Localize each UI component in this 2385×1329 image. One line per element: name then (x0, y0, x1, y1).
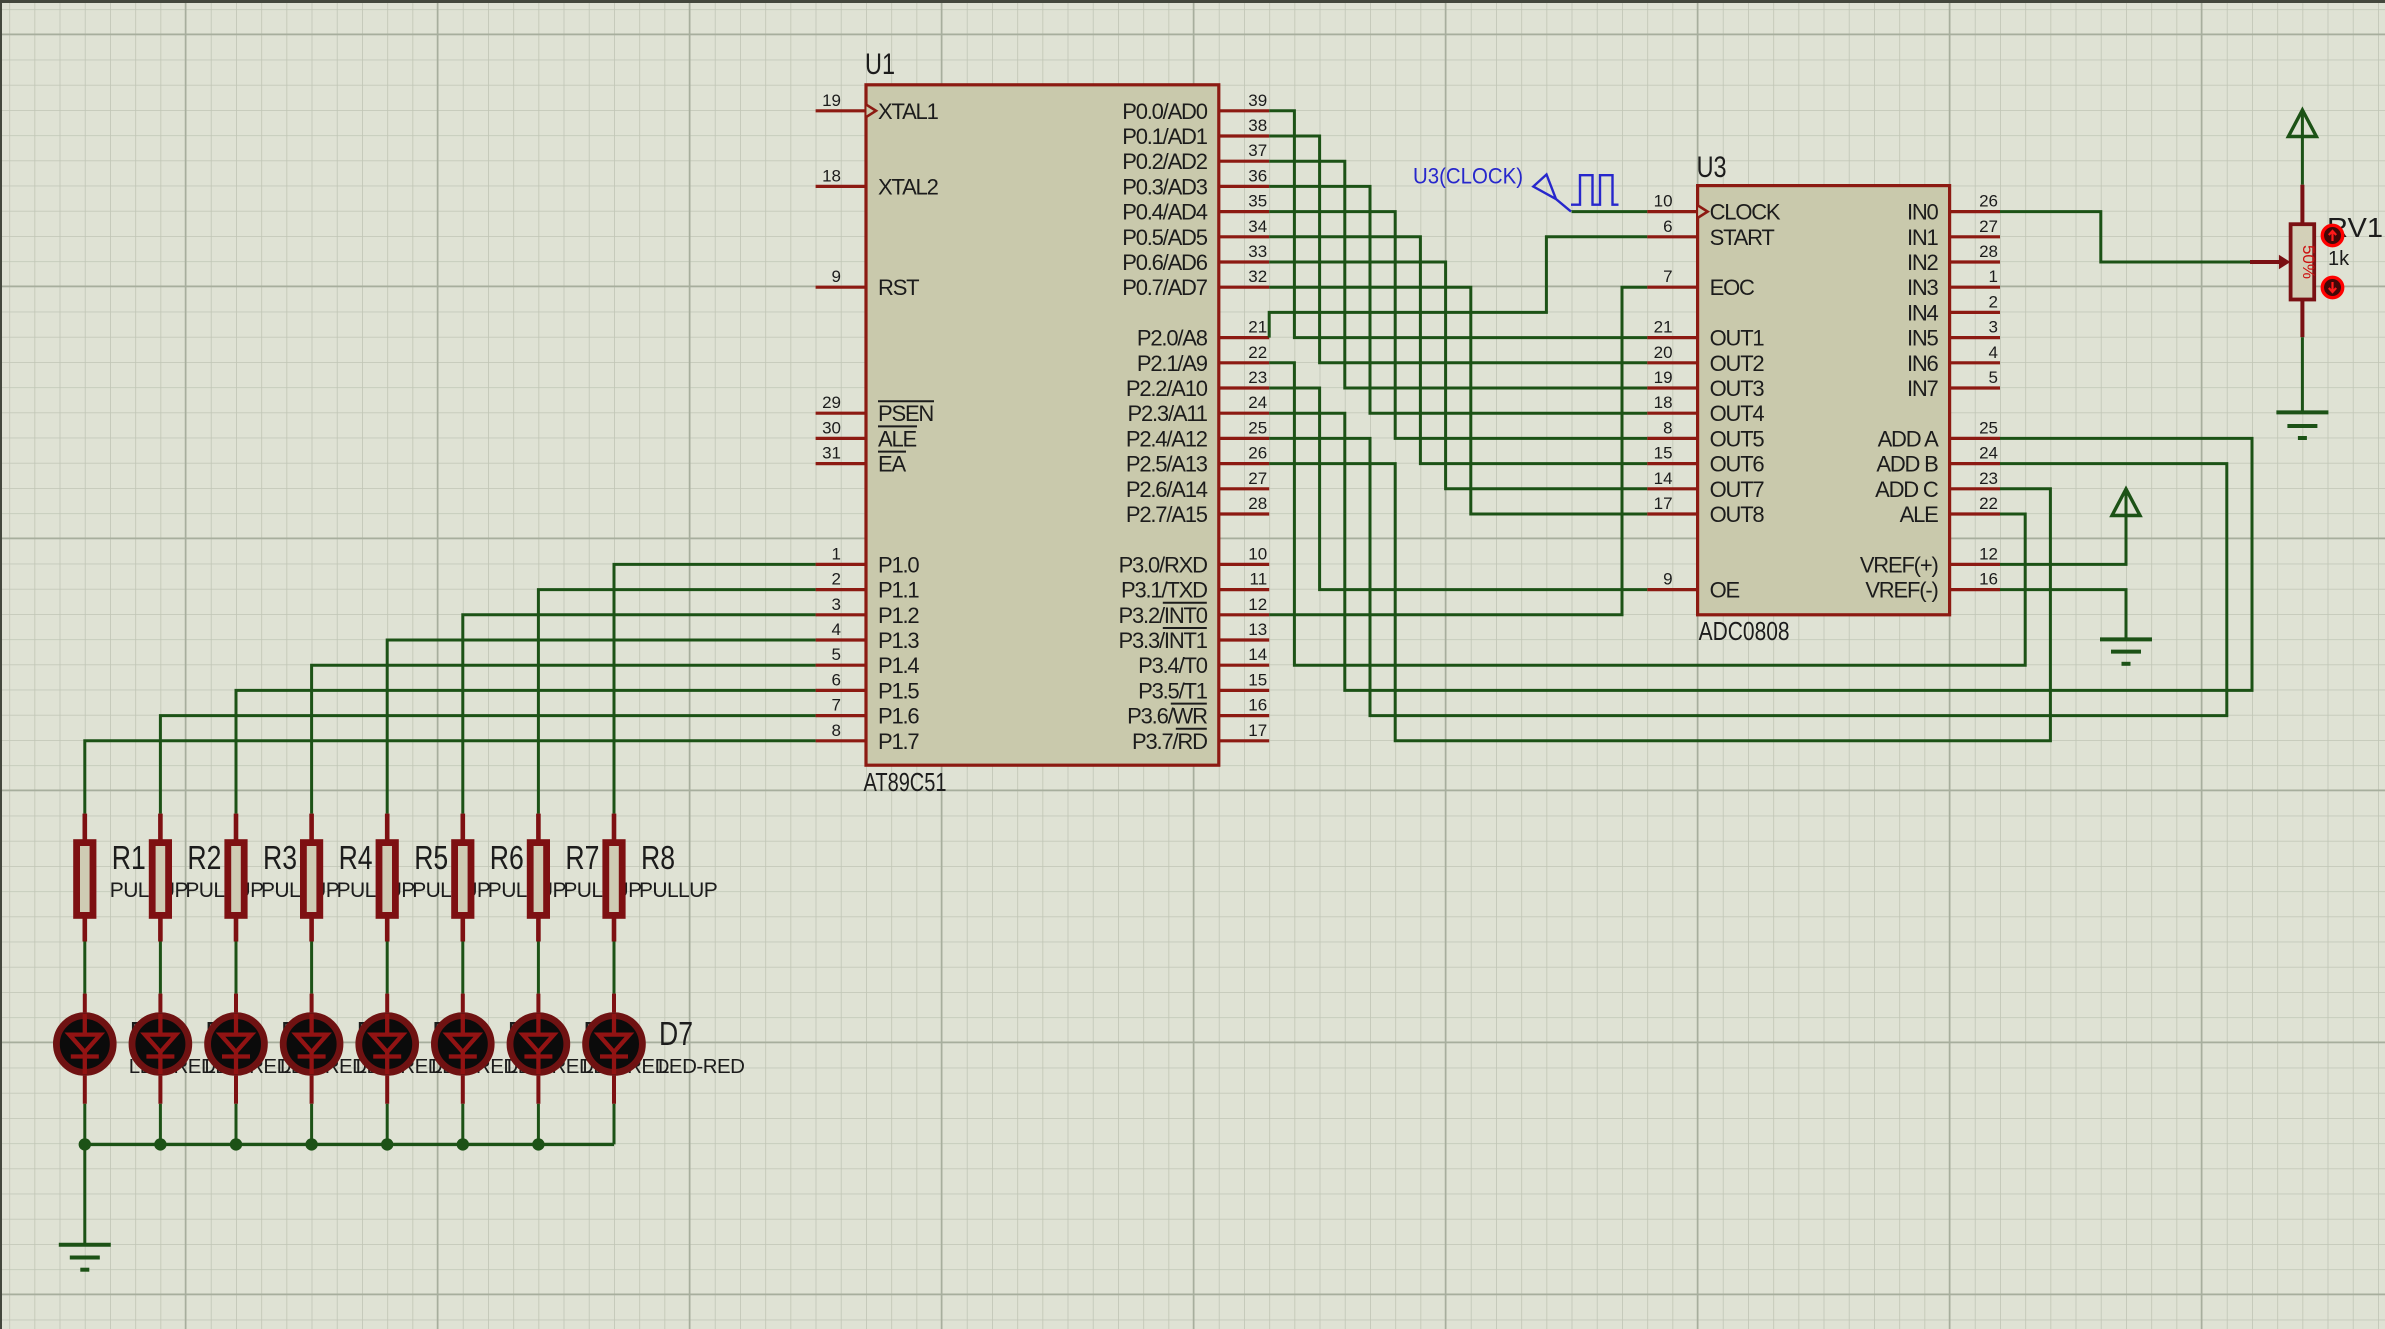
svg-text:15: 15 (1248, 670, 1267, 689)
svg-text:31: 31 (822, 444, 841, 463)
svg-text:U3(CLOCK): U3(CLOCK) (1413, 164, 1523, 189)
U3 pin 5 IN7 (1950, 368, 2000, 388)
wire P2.3 to ADD A (1269, 413, 2252, 690)
svg-text:P0.5/AD5: P0.5/AD5 (1122, 225, 1208, 250)
svg-text:IN7: IN7 (1907, 376, 1939, 401)
U3 pin 9 OE (1647, 570, 1697, 590)
svg-text:P3.1/TXD: P3.1/TXD (1121, 578, 1207, 603)
resistor R1 PULLUP (77, 814, 188, 942)
svg-text:ALE: ALE (1900, 502, 1939, 527)
svg-text:1: 1 (1989, 267, 1998, 286)
wire R7 to D6 (537, 942, 540, 994)
svg-text:13: 13 (1248, 620, 1267, 639)
pin 38 P0.1/AD1 (1219, 116, 1269, 136)
pin 35 P0.4/AD4 (1219, 192, 1269, 212)
svg-text:OUT2: OUT2 (1710, 351, 1765, 376)
svg-text:P1.3: P1.3 (878, 628, 919, 653)
U3 pin 16 VREF(-) (1950, 570, 2000, 590)
pin 5 P1.4 (816, 645, 866, 665)
svg-text:P3.2/INT0: P3.2/INT0 (1119, 603, 1208, 628)
wire P1.7 to R1 (85, 741, 816, 814)
pin 19 XTAL1 (816, 91, 866, 111)
svg-text:39: 39 (1248, 91, 1267, 110)
wire R8 to D7 (613, 942, 616, 994)
U3 pin 10 CLOCK (1647, 192, 1697, 212)
pin 15 P3.5/T1 (1219, 670, 1269, 690)
U3 pin 14 OUT7 (1647, 469, 1697, 489)
svg-text:RST: RST (878, 275, 919, 300)
svg-text:AT89C51: AT89C51 (864, 767, 947, 797)
svg-text:34: 34 (1248, 217, 1267, 236)
svg-text:P2.7/A15: P2.7/A15 (1126, 502, 1208, 527)
wire R2 to D1 (159, 942, 162, 994)
wire P2.2 to OE (1269, 388, 1647, 590)
LED D5 LED-RED (434, 994, 491, 1104)
svg-text:P3.6/WR: P3.6/WR (1127, 704, 1207, 729)
pin 4 P1.3 (816, 620, 866, 640)
svg-text:24: 24 (1979, 444, 1998, 463)
IC U1 AT89C51 body (866, 85, 1219, 765)
RV1 wiper arrow (2250, 260, 2282, 264)
resistor R3 PULLUP (228, 814, 339, 942)
wire R1 to D0 (83, 942, 86, 994)
svg-text:21: 21 (1248, 318, 1267, 337)
svg-text:IN0: IN0 (1907, 200, 1939, 225)
svg-text:P1.0: P1.0 (878, 552, 919, 577)
svg-text:P2.6/A14: P2.6/A14 (1126, 477, 1208, 502)
wire VREF(-) to ground (2000, 590, 2126, 640)
svg-text:14: 14 (1248, 645, 1267, 664)
pin 32 P0.7/AD7 (1219, 267, 1269, 287)
svg-text:20: 20 (1654, 343, 1673, 362)
pin 1 P1.0 (816, 544, 866, 564)
svg-text:R2: R2 (187, 839, 221, 876)
svg-text:P3.7/RD: P3.7/RD (1132, 729, 1207, 754)
wire P1.6 to R2 (160, 716, 815, 814)
pin 7 P1.6 (816, 696, 866, 716)
svg-text:ADD B: ADD B (1876, 452, 1938, 477)
svg-text:R4: R4 (339, 839, 373, 876)
U3 pin 28 IN2 (1950, 242, 2000, 262)
svg-text:26: 26 (1979, 192, 1998, 211)
svg-text:5: 5 (1989, 368, 1998, 387)
svg-text:P3.0/RXD: P3.0/RXD (1119, 552, 1208, 577)
U3 pin 6 START (1647, 217, 1697, 237)
resistor R6 PULLUP (455, 814, 566, 942)
wire D6 to bus (537, 1104, 540, 1145)
wire D7 to bus (613, 1104, 616, 1145)
pin 8 P1.7 (816, 721, 866, 741)
wire P1.5 to R3 (236, 690, 816, 813)
pin 14 P3.4/T0 (1219, 645, 1269, 665)
pin 13 P3.3/INT1 (1219, 620, 1269, 640)
U3 pin 12 VREF(+) (1950, 544, 2000, 564)
wire P0.6 to OUT7 (1269, 262, 1647, 489)
pin 26 P2.5/A13 (1219, 444, 1269, 464)
svg-text:30: 30 (822, 418, 841, 437)
svg-text:XTAL2: XTAL2 (878, 174, 939, 199)
svg-text:OUT3: OUT3 (1710, 376, 1765, 401)
U3 pin 4 IN6 (1950, 343, 2000, 363)
wire P0.7 to OUT8 (1269, 287, 1647, 514)
svg-text:37: 37 (1248, 141, 1267, 160)
svg-text:3: 3 (832, 595, 841, 614)
IC U3 ADC0808 body (1698, 186, 1950, 615)
svg-text:50%: 50% (2299, 245, 2318, 279)
svg-text:OE: OE (1710, 578, 1740, 603)
U3 pin 1 IN3 (1950, 267, 2000, 287)
pin 25 P2.4/A12 (1219, 418, 1269, 438)
svg-text:16: 16 (1248, 696, 1267, 715)
pin 29 PSEN (816, 393, 866, 413)
U3 pin 21 OUT1 (1647, 318, 1697, 338)
svg-text:27: 27 (1979, 217, 1998, 236)
svg-text:8: 8 (1663, 418, 1672, 437)
wire R3 to D2 (235, 942, 238, 994)
svg-text:PSEN: PSEN (878, 401, 933, 426)
wire EOC to P3.2/INT0 (1269, 287, 1647, 615)
svg-text:4: 4 (832, 620, 841, 639)
svg-text:24: 24 (1248, 393, 1267, 412)
LED D0 LED-RED (56, 994, 113, 1104)
wire P0.1 to OUT2 (1269, 136, 1647, 363)
wire P0.5 to OUT6 (1269, 237, 1647, 464)
svg-text:IN4: IN4 (1907, 300, 1939, 325)
junction (230, 1138, 242, 1150)
clock generator marker triangle (1533, 175, 1571, 212)
svg-text:OUT1: OUT1 (1710, 326, 1765, 351)
svg-text:29: 29 (822, 393, 841, 412)
svg-text:P1.6: P1.6 (878, 704, 919, 729)
svg-text:U3: U3 (1697, 151, 1727, 184)
svg-text:IN2: IN2 (1907, 250, 1939, 275)
svg-text:9: 9 (1663, 570, 1672, 589)
pin 10 P3.0/RXD (1219, 544, 1269, 564)
U3 pin 27 IN1 (1950, 217, 2000, 237)
svg-text:7: 7 (1663, 267, 1672, 286)
wire P1.0 to R8 (614, 564, 816, 813)
svg-text:17: 17 (1654, 494, 1673, 513)
resistor R5 PULLUP (379, 814, 490, 942)
svg-text:12: 12 (1979, 544, 1998, 563)
wire D3 to bus (310, 1104, 313, 1145)
svg-text:18: 18 (822, 166, 841, 185)
svg-text:R6: R6 (490, 839, 524, 876)
junction (532, 1138, 544, 1150)
svg-text:P0.2/AD2: P0.2/AD2 (1122, 149, 1208, 174)
svg-text:2: 2 (832, 570, 841, 589)
svg-text:VREF(+): VREF(+) (1860, 552, 1938, 577)
RV1 top pin (2300, 185, 2304, 223)
svg-text:IN1: IN1 (1907, 225, 1939, 250)
XTAL1 clock-input arrow (867, 105, 877, 117)
wire P1.2 to R6 (463, 615, 816, 814)
svg-text:CLOCK: CLOCK (1710, 200, 1781, 225)
svg-text:VREF(-): VREF(-) (1865, 578, 1937, 603)
svg-text:P1.1: P1.1 (878, 578, 919, 603)
svg-text:D7: D7 (659, 1015, 693, 1052)
U3 pin 23 ADD C (1950, 469, 2000, 489)
svg-text:10: 10 (1248, 544, 1267, 563)
wire D0 to bus (83, 1104, 86, 1145)
ground symbol bottom-left (59, 1245, 111, 1270)
junction (154, 1138, 166, 1150)
svg-text:27: 27 (1248, 469, 1267, 488)
wire RV1 to ground (2301, 337, 2304, 412)
svg-text:ALE: ALE (878, 426, 917, 451)
svg-text:ADD C: ADD C (1875, 477, 1939, 502)
pin 12 P3.2/INT0 (1219, 595, 1269, 615)
ground symbol below RV1 (2276, 412, 2328, 438)
RV1 bottom pin (2300, 300, 2304, 338)
wire P1.3 to R5 (387, 640, 815, 814)
svg-text:12: 12 (1248, 595, 1267, 614)
svg-text:START: START (1710, 225, 1775, 250)
wire P0.4 to OUT5 (1269, 212, 1647, 439)
svg-text:21: 21 (1654, 318, 1673, 337)
svg-text:P2.0/A8: P2.0/A8 (1137, 326, 1208, 351)
U3 pin 26 IN0 (1950, 192, 2000, 212)
svg-text:OUT4: OUT4 (1710, 401, 1765, 426)
svg-text:4: 4 (1989, 343, 1998, 362)
LED D7 LED-RED (586, 994, 643, 1104)
svg-text:5: 5 (832, 645, 841, 664)
svg-text:P1.4: P1.4 (878, 653, 919, 678)
svg-text:P3.4/T0: P3.4/T0 (1138, 653, 1208, 678)
svg-text:P2.1/A9: P2.1/A9 (1137, 351, 1208, 376)
svg-text:P0.6/AD6: P0.6/AD6 (1122, 250, 1208, 275)
svg-text:P3.5/T1: P3.5/T1 (1138, 678, 1208, 703)
U3 pin 2 IN4 (1950, 292, 2000, 312)
svg-text:ADC0808: ADC0808 (1699, 616, 1790, 646)
pin 16 P3.6/WR (1219, 696, 1269, 716)
svg-text:R1: R1 (112, 839, 146, 876)
pin 31 EA (816, 444, 866, 464)
RV1 adjust-down marker (2322, 277, 2342, 297)
RV1 adjust-up marker (2322, 225, 2342, 245)
wire P1.1 to R7 (538, 590, 815, 814)
U3 pin 18 OUT4 (1647, 393, 1697, 413)
junction (381, 1138, 393, 1150)
wire P0.3 to OUT4 (1269, 186, 1647, 413)
LED D4 labels (431, 1015, 518, 1078)
pin 37 P0.2/AD2 (1219, 141, 1269, 161)
svg-text:38: 38 (1248, 116, 1267, 135)
U3 pin 3 IN5 (1950, 318, 2000, 338)
RV1 body (2291, 224, 2315, 299)
svg-text:23: 23 (1248, 368, 1267, 387)
pin 18 XTAL2 (816, 166, 866, 186)
svg-text:35: 35 (1248, 192, 1267, 211)
LED D2 LED-RED (208, 994, 265, 1104)
wire P2.5 to ADD C (1269, 464, 2050, 741)
svg-text:U1: U1 (865, 48, 895, 81)
wire P1.4 to R4 (312, 665, 816, 813)
pin 30 ALE (816, 418, 866, 438)
svg-text:33: 33 (1248, 242, 1267, 261)
U3 pin 7 EOC (1647, 267, 1697, 287)
U3 pin 20 OUT2 (1647, 343, 1697, 363)
svg-text:P0.3/AD3: P0.3/AD3 (1122, 174, 1208, 199)
resistor R8 PULLUP (606, 814, 717, 942)
svg-text:OUT8: OUT8 (1710, 502, 1765, 527)
svg-text:9: 9 (832, 267, 841, 286)
wire P0.2 to OUT3 (1269, 161, 1647, 388)
svg-text:EA: EA (878, 452, 906, 477)
svg-text:P0.1/AD1: P0.1/AD1 (1122, 124, 1208, 149)
junction (457, 1138, 469, 1150)
svg-text:28: 28 (1979, 242, 1998, 261)
svg-text:P2.2/A10: P2.2/A10 (1126, 376, 1208, 401)
resistor R2 PULLUP (152, 814, 263, 942)
svg-text:P2.5/A13: P2.5/A13 (1126, 452, 1208, 477)
wire D4 to bus (386, 1104, 389, 1145)
svg-text:25: 25 (1979, 418, 1998, 437)
LED D6 LED-RED (510, 994, 567, 1104)
svg-text:15: 15 (1654, 444, 1673, 463)
wire R5 to D4 (386, 942, 389, 994)
svg-text:P1.7: P1.7 (878, 729, 919, 754)
svg-text:P2.4/A12: P2.4/A12 (1126, 426, 1208, 451)
cathode bus wire (85, 1143, 614, 1146)
svg-text:6: 6 (1663, 217, 1672, 236)
pin 6 P1.5 (816, 670, 866, 690)
svg-text:OUT7: OUT7 (1710, 477, 1765, 502)
pin 27 P2.6/A14 (1219, 469, 1269, 489)
wire D2 to bus (235, 1104, 238, 1145)
U3 CLOCK input arrow (1698, 206, 1708, 218)
LED D6 labels (582, 1015, 669, 1078)
svg-text:10: 10 (1654, 192, 1673, 211)
svg-text:1: 1 (832, 544, 841, 563)
LED D4 LED-RED (359, 994, 416, 1104)
svg-text:R8: R8 (641, 839, 675, 876)
wire clock generator to U3 CLOCK (1572, 210, 1648, 213)
svg-text:P0.4/AD4: P0.4/AD4 (1122, 200, 1208, 225)
pin 28 P2.7/A15 (1219, 494, 1269, 514)
U3 pin 15 OUT6 (1647, 444, 1697, 464)
pin 17 P3.7/RD (1219, 721, 1269, 741)
svg-text:OUT5: OUT5 (1710, 426, 1765, 451)
pin 3 P1.2 (816, 595, 866, 615)
wire R4 to D3 (310, 942, 313, 994)
LED D7 labels (658, 1015, 745, 1078)
pin 36 P0.3/AD3 (1219, 166, 1269, 186)
wire P0.0 to OUT1 (1269, 111, 1647, 338)
svg-text:P1.2: P1.2 (878, 603, 919, 628)
svg-text:IN5: IN5 (1907, 326, 1939, 351)
LED D3 LED-RED (283, 994, 340, 1104)
wire P2.0 to START (1269, 237, 1647, 338)
U3 pin 8 OUT5 (1647, 418, 1697, 438)
svg-text:25: 25 (1248, 418, 1267, 437)
pin 22 P2.1/A9 (1219, 343, 1269, 363)
svg-text:23: 23 (1979, 469, 1998, 488)
power symbol above RV1 (2288, 110, 2316, 185)
LED D2 labels (280, 1015, 367, 1078)
junction (305, 1138, 317, 1150)
U3 pin 17 OUT8 (1647, 494, 1697, 514)
pin 23 P2.2/A10 (1219, 368, 1269, 388)
svg-text:P3.3/INT1: P3.3/INT1 (1119, 628, 1208, 653)
pin 2 P1.1 (816, 570, 866, 590)
svg-text:P0.0/AD0: P0.0/AD0 (1122, 99, 1208, 124)
svg-text:R7: R7 (565, 839, 599, 876)
LED D5 labels (507, 1015, 594, 1078)
svg-text:IN3: IN3 (1907, 275, 1939, 300)
svg-text:22: 22 (1248, 343, 1267, 362)
wire IN0 to RV1 wiper (2000, 212, 2252, 262)
svg-text:18: 18 (1654, 393, 1673, 412)
svg-text:17: 17 (1248, 721, 1267, 740)
LED D3 labels (356, 1015, 443, 1078)
svg-text:6: 6 (832, 670, 841, 689)
svg-text:7: 7 (832, 696, 841, 715)
U3 pin 25 ADD A (1950, 418, 2000, 438)
U3 pin 22 ALE (1950, 494, 2000, 514)
svg-text:2: 2 (1989, 292, 1998, 311)
svg-text:22: 22 (1979, 494, 1998, 513)
svg-text:19: 19 (1654, 368, 1673, 387)
LED D1 LED-RED (132, 994, 189, 1104)
svg-text:XTAL1: XTAL1 (878, 99, 939, 124)
svg-text:19: 19 (822, 91, 841, 110)
svg-text:P1.5: P1.5 (878, 678, 919, 703)
pin 9 RST (816, 267, 866, 287)
svg-text:R3: R3 (263, 839, 297, 876)
U3 pin 19 OUT3 (1647, 368, 1697, 388)
power symbol for VREF(+) (2112, 489, 2140, 564)
svg-text:16: 16 (1979, 570, 1998, 589)
clock generator square-wave glyph (1571, 175, 1619, 205)
svg-text:11: 11 (1250, 570, 1268, 589)
LED D1 labels (204, 1015, 291, 1078)
wire D5 to bus (461, 1104, 464, 1145)
pin 21 P2.0/A8 (1219, 318, 1269, 338)
svg-text:IN6: IN6 (1907, 351, 1939, 376)
wire D1 to bus (159, 1104, 162, 1145)
svg-text:R5: R5 (414, 839, 448, 876)
svg-text:14: 14 (1654, 469, 1673, 488)
svg-text:ADD A: ADD A (1878, 426, 1940, 451)
junction (79, 1138, 91, 1150)
svg-text:EOC: EOC (1710, 275, 1755, 300)
ground symbol below U3 (2100, 639, 2152, 663)
svg-text:36: 36 (1248, 166, 1267, 185)
svg-text:3: 3 (1989, 318, 1998, 337)
svg-text:28: 28 (1248, 494, 1267, 513)
svg-text:8: 8 (832, 721, 841, 740)
pin 33 P0.6/AD6 (1219, 242, 1269, 262)
U3 pin 24 ADD B (1950, 444, 2000, 464)
wire R6 to D5 (461, 942, 464, 994)
wire VREF(+) to power (2000, 514, 2126, 564)
resistor R4 PULLUP (303, 814, 414, 942)
LED D0 labels (129, 1015, 216, 1078)
svg-text:P2.3/A11: P2.3/A11 (1128, 401, 1208, 426)
svg-text:OUT6: OUT6 (1710, 452, 1765, 477)
pin 11 P3.1/TXD (1219, 570, 1269, 590)
svg-text:PULLUP: PULLUP (639, 879, 717, 902)
svg-text:32: 32 (1248, 267, 1267, 286)
pin 39 P0.0/AD0 (1219, 91, 1269, 111)
wire bus to ground (83, 1144, 86, 1244)
resistor R7 PULLUP (530, 814, 641, 942)
pin 24 P2.3/A11 (1219, 393, 1269, 413)
wire P2.1 to U3 ALE (1269, 363, 2025, 665)
wire P2.4 to ADD B (1269, 438, 2227, 715)
pin 34 P0.5/AD5 (1219, 217, 1269, 237)
